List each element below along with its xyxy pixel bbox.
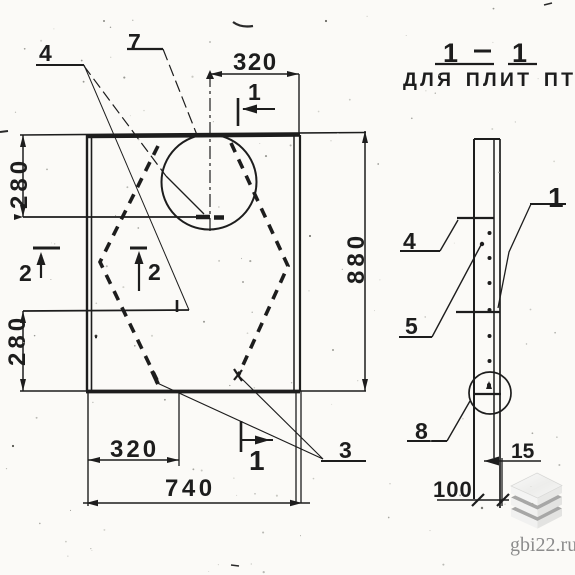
label 7 underline <box>127 48 163 50</box>
svg-text:gbi22.ru: gbi22.ru <box>510 534 575 556</box>
svg-text:880: 880 <box>343 232 370 284</box>
label 5 target dot <box>480 242 484 246</box>
svg-text:100: 100 <box>433 477 473 502</box>
slab section top cap <box>474 138 500 140</box>
heavy end mark right dashed line <box>234 369 242 381</box>
dashed opening outline left side <box>100 146 158 380</box>
section mark 2 inner <box>130 248 147 291</box>
label 5 section underline <box>399 336 432 338</box>
plate right edge (double line) <box>294 135 300 391</box>
label 1 section leader <box>498 204 531 308</box>
extension line under section <box>501 458 503 506</box>
loop tick lower <box>176 300 179 312</box>
dimension 320 bottom line <box>88 391 179 466</box>
section title dash <box>474 50 491 53</box>
heavy end mark left dashed line <box>152 371 158 384</box>
label 3 leader from left loop end <box>155 382 323 459</box>
loop reference line lower <box>23 310 189 311</box>
svg-text:2: 2 <box>19 260 32 286</box>
bottom slab <box>511 496 562 521</box>
dimension 100 line <box>437 494 509 506</box>
label 4 leader to upper loop <box>84 66 166 176</box>
svg-text:320: 320 <box>110 436 159 463</box>
dimension 280 lower line <box>20 311 26 391</box>
svg-text:280: 280 <box>6 157 33 209</box>
label 1 section underline <box>530 203 566 205</box>
middle slab <box>511 485 562 510</box>
label 4 section elbow <box>440 220 458 251</box>
slab section left edge <box>473 139 475 499</box>
label 4 leader to lower loop <box>84 65 189 310</box>
loop reference line upper <box>23 216 196 218</box>
label 4 section underline <box>400 250 440 252</box>
svg-text:1: 1 <box>248 79 261 105</box>
dimension 880 line <box>362 131 368 391</box>
small tick in detail circle <box>486 381 492 389</box>
section title underline <box>435 63 537 65</box>
dimension 280 upper line <box>14 135 26 220</box>
section mark 2 outer <box>33 248 60 278</box>
plate left edge (double line) <box>87 135 92 391</box>
svg-text:320: 320 <box>233 49 278 76</box>
right edge extension below plate <box>296 391 301 503</box>
svg-text:2: 2 <box>148 259 161 285</box>
svg-text:4: 4 <box>39 40 52 66</box>
svg-text:5: 5 <box>405 313 418 339</box>
detail circle section <box>469 372 511 414</box>
lifting loop marks in circle <box>196 215 224 220</box>
dimension 320 top line <box>206 70 299 135</box>
label 7 leader <box>163 49 197 135</box>
plate top edge <box>20 133 366 137</box>
section mark 1 top <box>238 98 275 126</box>
svg-text:7: 7 <box>128 29 141 55</box>
mesh bar dots <box>487 231 492 387</box>
left edge extension below plate <box>87 391 89 506</box>
slab section right edge inner <box>493 139 495 458</box>
svg-text:ДЛЯ ПЛИТ ПТ: ДЛЯ ПЛИТ ПТ <box>403 69 575 91</box>
svg-text:1: 1 <box>548 182 564 213</box>
svg-text:1: 1 <box>249 445 265 476</box>
dimension 15 line <box>484 457 541 466</box>
label 4 underline <box>36 64 84 66</box>
label 3 underline <box>321 460 366 462</box>
label 5 section leader <box>432 245 481 337</box>
svg-text:740: 740 <box>165 475 216 502</box>
svg-text:280: 280 <box>4 314 31 366</box>
label 3 leader from right loop end <box>238 375 323 459</box>
dashed opening outline right side <box>231 143 288 376</box>
transverse bar lower <box>456 311 500 313</box>
top slab <box>511 473 562 498</box>
dimension 740 line <box>83 500 310 506</box>
svg-text:15: 15 <box>511 440 535 463</box>
label 8 section leader <box>447 401 470 441</box>
transverse bar upper <box>457 217 494 219</box>
label 8 section underline <box>407 440 447 442</box>
slab section bottom cap <box>475 393 501 395</box>
svg-text:3: 3 <box>339 437 352 463</box>
plate bottom edge <box>20 390 366 393</box>
slab section right edge outer <box>499 139 501 508</box>
vertical centerline through circle <box>209 74 211 234</box>
section mark 1 bottom <box>241 421 273 452</box>
detail circle on loop <box>162 135 257 230</box>
